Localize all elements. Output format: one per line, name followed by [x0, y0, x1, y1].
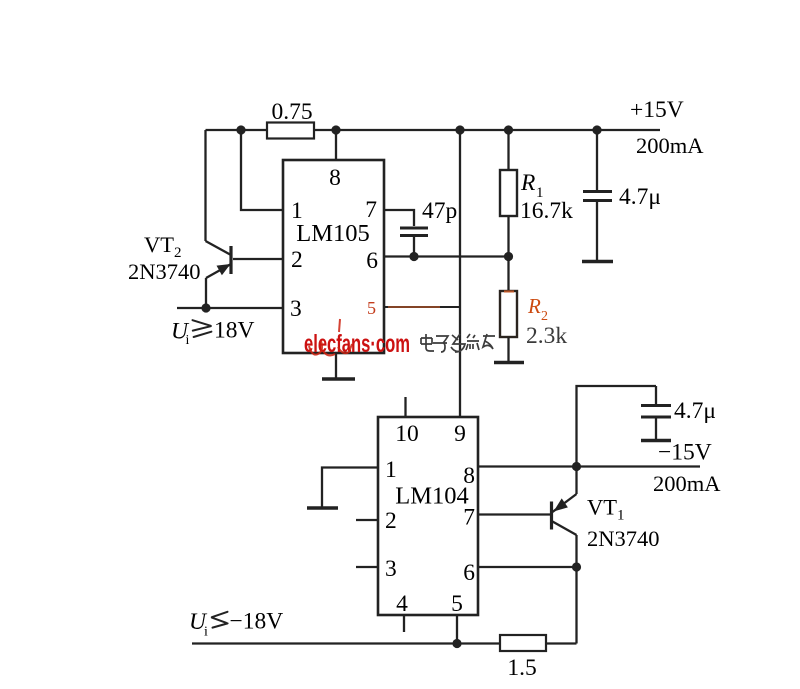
node dot rail-R1 [504, 125, 513, 134]
wire pin8 / -15V rail [478, 465, 700, 467]
node dot pin6-collector [572, 562, 581, 571]
svg-text:LM105: LM105 [296, 220, 370, 247]
svg-text:47p: 47p [422, 198, 457, 224]
wire pin9 vertical (top rail to LM104 pin9) [459, 130, 461, 417]
op-amp U2 LM104 [378, 417, 478, 617]
wire pin6 to collector line [478, 566, 577, 568]
transistor VT1 2N3740 [552, 467, 577, 644]
ground R2 [494, 361, 524, 365]
wire pin3 stub [356, 566, 378, 568]
svg-text:8: 8 [329, 165, 341, 191]
resistor 1.5 [500, 635, 546, 681]
svg-text:1: 1 [385, 457, 397, 483]
svg-text:R: R [520, 170, 535, 196]
svg-text:10: 10 [395, 421, 419, 447]
svg-text:2N3740: 2N3740 [587, 526, 660, 551]
capacitor 4.7u top [582, 130, 613, 262]
wire input rail U>=18V [177, 307, 283, 309]
svg-text:R: R [527, 294, 541, 318]
wire pin1 of LM104 to ground [322, 468, 378, 508]
svg-text:i: i [186, 333, 190, 348]
wire pin8 of LM105 [335, 130, 337, 160]
svg-text:4.7μ: 4.7μ [674, 398, 716, 424]
svg-text:6: 6 [366, 248, 378, 274]
wire pin1 of LM105 [241, 130, 283, 210]
node dot rail-cap [592, 125, 601, 134]
svg-text:2.3k: 2.3k [526, 323, 567, 349]
wire -15V cap branch [577, 386, 657, 467]
wire pin6 line [384, 255, 509, 257]
resistor R2 2.3k [500, 257, 517, 362]
svg-text:4: 4 [396, 591, 408, 617]
capacitor 47p [400, 228, 428, 257]
wire left vertical from rail corner down to VT2 collector [204, 130, 206, 241]
wire pin4 stub [403, 615, 405, 632]
ground LM104 pin1 [307, 506, 338, 510]
svg-text:4.7μ: 4.7μ [619, 184, 661, 210]
node dot -15V junction [572, 462, 581, 471]
svg-text:16.7k: 16.7k [520, 198, 573, 224]
svg-text:2: 2 [541, 309, 548, 324]
svg-text:3: 3 [290, 296, 302, 322]
svg-text:200mA: 200mA [653, 471, 721, 496]
wire pin2 stub [356, 519, 378, 521]
svg-text:6: 6 [463, 560, 475, 586]
transistor VT2 2N3740 [206, 241, 284, 278]
wire bottom input rail [192, 642, 577, 644]
svg-text:2: 2 [291, 247, 303, 273]
svg-text:5: 5 [451, 591, 463, 617]
resistor 0.75 [267, 99, 314, 139]
svg-text:+15V: +15V [630, 97, 684, 123]
resistor R1 16.7k [500, 130, 517, 257]
node dot rail-pin8 [331, 125, 340, 134]
svg-text:2: 2 [385, 508, 397, 534]
svg-text:5: 5 [367, 298, 376, 318]
wire pin7 to VT1 base [478, 513, 550, 515]
watermark red squiggle [309, 319, 352, 355]
svg-text:LM104: LM104 [395, 483, 469, 510]
svg-text:i: i [204, 625, 208, 640]
node dot 47p-pin6 [409, 252, 418, 261]
node dot pin5-rail [452, 639, 461, 648]
wire VT2 emitter down to input rail [205, 278, 207, 308]
wire pin5 down to bottom rail [456, 615, 458, 644]
wire pin7 to 47p [384, 210, 414, 226]
label Ui<=-18V [189, 609, 283, 640]
svg-text:200mA: 200mA [636, 133, 704, 158]
node dot rail-pin1 [236, 125, 245, 134]
svg-text:1.5: 1.5 [507, 655, 536, 681]
svg-text:−18V: −18V [230, 609, 284, 635]
node dot input rail [201, 303, 210, 312]
op-amp U1 LM105 [283, 160, 384, 353]
wire +15V top rail [206, 129, 661, 131]
svg-text:18V: 18V [214, 318, 255, 344]
capacitor 4.7u bottom [641, 386, 671, 441]
svg-text:3: 3 [385, 556, 397, 582]
svg-text:2N3740: 2N3740 [128, 259, 201, 284]
ground below LM105 [322, 353, 355, 379]
node dot rail-pin9 [455, 125, 464, 134]
watermark chinese glyphs 电子发烧友 [421, 334, 495, 352]
svg-text:−15V: −15V [658, 440, 712, 466]
node dot R1-pin6 [504, 252, 513, 261]
label Ui>=18V [171, 318, 255, 349]
svg-text:0.75: 0.75 [271, 99, 312, 125]
wire pin5 red line [384, 306, 460, 308]
wire pin10 stub [404, 397, 406, 417]
svg-text:9: 9 [454, 421, 466, 447]
